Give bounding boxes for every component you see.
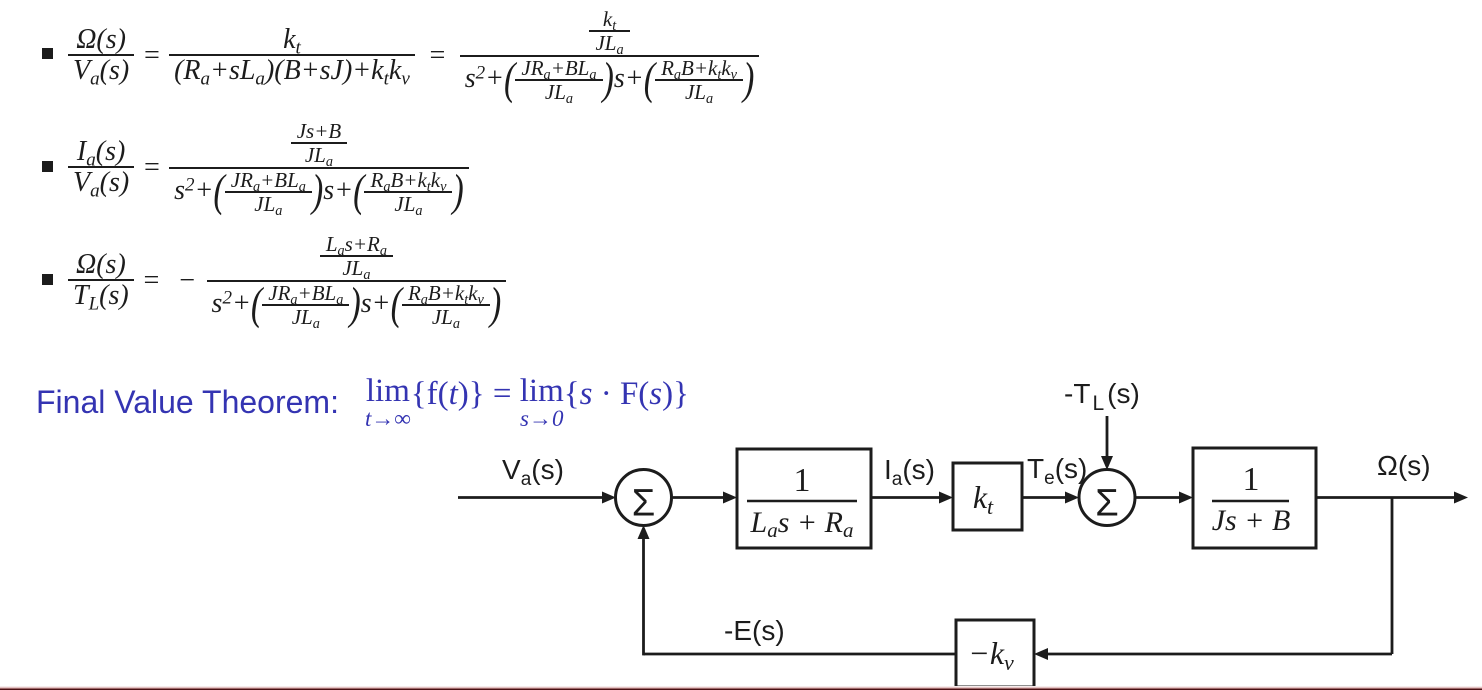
svg-text:Ia(s): Ia(s) (884, 454, 935, 490)
svg-text:Va(s): Va(s) (502, 454, 564, 490)
wire: feedback branch down from output node (1391, 498, 1394, 655)
wire: feedback from block -kv into summing junction 1 (638, 525, 957, 655)
bullet 1 (42, 48, 53, 59)
block G2: 1/(Js+B) (1193, 448, 1316, 548)
equation 2: Ia(s)/Va(s) transfer function (68, 120, 469, 216)
svg-text:1: 1 (794, 462, 811, 499)
bullet 2 (42, 161, 53, 172)
block G1: 1/(Las+Ra) (737, 449, 871, 548)
svg-text:Ω(s): Ω(s) (1377, 450, 1431, 481)
svg-text:Σ: Σ (1095, 483, 1119, 525)
equation 1: Omega(s)/Va(s) transfer function (68, 8, 759, 104)
svg-text:-E(s): -E(s) (724, 615, 785, 646)
block H1: -kv (956, 620, 1034, 687)
wire: -TL(s) into summing junction 2 (1101, 416, 1113, 470)
svg-text:Js + B: Js + B (1212, 504, 1291, 537)
Final Value Theorem heading (36, 384, 339, 421)
Final Value Theorem formula (365, 379, 689, 425)
svg-text:1: 1 (1243, 461, 1260, 498)
wire: block G1 to block kt, labelled Ia(s) (871, 492, 953, 504)
wire: output Omega(s) (1316, 492, 1468, 504)
block kt (953, 463, 1022, 530)
wire: block kt to summing junction 2, labelled Te(s) (1022, 492, 1079, 504)
svg-text:Te(s): Te(s) (1027, 453, 1087, 489)
bottom maroon rule (0, 686, 1482, 690)
wire: feedback into block -kv (1034, 648, 1392, 660)
wire: input into summing junction 1 (458, 492, 616, 504)
bullet 3 (42, 274, 53, 285)
svg-text:Σ: Σ (632, 483, 656, 525)
svg-text:Las + Ra: Las + Ra (750, 506, 854, 542)
summing junction U1 (616, 470, 672, 526)
equation 3: Omega(s)/TL(s) transfer function (68, 233, 506, 329)
svg-text:-TL(s): -TL(s) (1064, 378, 1140, 415)
wire: summing junction 1 to block 1/(Las+Ra) (671, 492, 737, 504)
summing junction U2 (1079, 470, 1135, 526)
wire: summing junction 2 to block 1/(Js+B) (1135, 492, 1193, 504)
